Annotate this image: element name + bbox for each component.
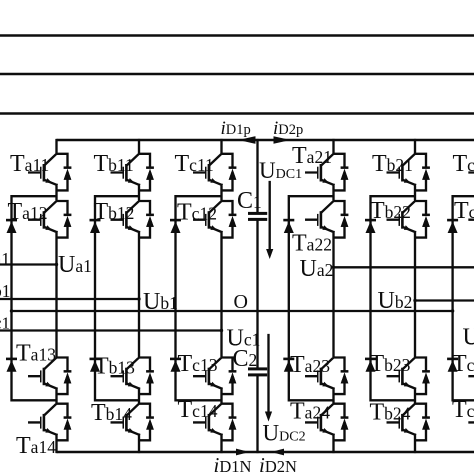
svg-text:Tc13: Tc13 [178,351,218,377]
svg-text:Tb14: Tb14 [91,400,132,426]
svg-text:Tc22: Tc22 [454,198,474,224]
svg-text:Uc2: Uc2 [463,325,474,351]
svg-text:Tc14: Tc14 [178,397,218,423]
svg-text:a1: a1 [0,249,10,269]
svg-text:Ta11: Ta11 [10,151,49,177]
svg-text:b1: b1 [0,281,11,301]
svg-text:Ta14: Ta14 [16,433,56,459]
svg-text:Ta21: Ta21 [292,143,332,169]
svg-text:Tc23: Tc23 [452,351,474,377]
svg-text:Tb24: Tb24 [370,400,411,426]
svg-text:c1: c1 [0,314,10,333]
svg-text:O: O [234,291,248,313]
svg-text:iD1N: iD1N [214,453,252,474]
svg-text:Ta12: Ta12 [8,199,48,225]
svg-text:Tb11: Tb11 [94,151,134,177]
svg-text:C2: C2 [233,346,258,372]
svg-text:Ta23: Ta23 [290,352,330,378]
svg-text:Tb23: Tb23 [370,351,411,377]
svg-text:Tb13: Tb13 [94,353,135,379]
svg-text:iD1p: iD1p [221,118,251,139]
svg-text:Ua1: Ua1 [58,252,92,278]
svg-text:Ta24: Ta24 [290,399,330,425]
svg-text:iD2N: iD2N [259,453,297,474]
svg-text:Ub2: Ub2 [378,288,413,314]
svg-text:Tb12: Tb12 [94,199,135,225]
svg-text:Ua2: Ua2 [300,256,334,282]
svg-text:Tc12: Tc12 [177,200,217,226]
svg-text:Tb22: Tb22 [370,198,411,224]
svg-text:C1: C1 [237,188,262,214]
svg-text:Ta22: Ta22 [292,231,332,257]
svg-text:Tc11: Tc11 [175,151,214,177]
svg-text:Tc21: Tc21 [453,151,474,177]
svg-text:Tc24: Tc24 [452,397,474,423]
svg-text:Ta13: Ta13 [16,341,56,367]
svg-text:Tb21: Tb21 [372,151,413,177]
svg-text:iD2p: iD2p [273,118,303,139]
svg-text:Ub1: Ub1 [143,289,178,315]
